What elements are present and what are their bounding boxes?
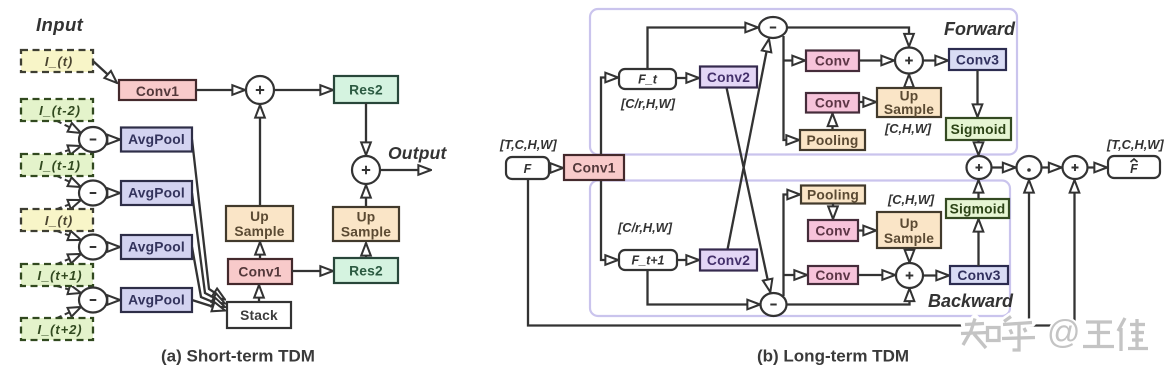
wire F_t+1 bottom branch to minus-bottom <box>648 270 761 305</box>
svg-text:Res2: Res2 <box>349 264 383 279</box>
block Conv b2 <box>808 266 858 284</box>
block Conv f1 <box>806 51 859 72</box>
watermark halo <box>961 317 1148 352</box>
svg-text:[C,H,W]: [C,H,W] <box>887 192 935 207</box>
svg-text:Input: Input <box>36 14 84 35</box>
svg-text:Conv: Conv <box>815 96 850 111</box>
wire F to Conv1 <box>549 167 563 169</box>
svg-text:I_(t): I_(t) <box>45 54 73 69</box>
svg-text:[C,H,W]: [C,H,W] <box>884 121 932 136</box>
svg-text:AvgPool: AvgPool <box>128 293 185 308</box>
block Up Sample b <box>877 212 941 248</box>
cross wire Conv2-top to minus-bottom <box>727 88 771 293</box>
wire AvgPool3 to Stack <box>192 247 225 307</box>
add node add3 <box>967 156 992 179</box>
watermark zhihu <box>961 317 1148 352</box>
wire Conv1 up to F_t <box>601 78 618 156</box>
wire Conv-b2 to addB <box>858 274 895 276</box>
svg-text:I_(t-1): I_(t-1) <box>39 158 81 173</box>
block F_t+1 <box>619 250 677 270</box>
svg-text:Sample: Sample <box>234 224 284 239</box>
wire Pooling-b down to Conv-b1 <box>832 204 834 220</box>
wire F_t to Conv2 top <box>676 77 699 79</box>
wire AvgPool4 to Stack <box>192 300 225 311</box>
block F <box>506 157 549 179</box>
svg-text:Conv1: Conv1 <box>136 84 179 99</box>
wire Sigmoid-f down to add3 <box>977 140 979 155</box>
input frame I_(t) yellow dashed <box>21 50 93 72</box>
dashed wire I_(t) to sub2 <box>57 200 81 209</box>
dashed wire I_(t+1) to sub4 <box>57 286 81 293</box>
svg-text:I_(t-2): I_(t-2) <box>39 103 81 118</box>
wire Conv3-f down to Sigmoid-f <box>976 70 978 117</box>
wire minus-top to addF (top route) <box>787 28 909 47</box>
svg-text:I_(t): I_(t) <box>45 213 73 228</box>
dashed wire I_(t) to sub3 <box>57 231 81 240</box>
wire sub2 to AvgPool2 <box>107 192 120 194</box>
wire sub1 to AvgPool1 <box>107 138 120 140</box>
subtract node sub2 <box>79 181 107 206</box>
block Res2 top <box>334 76 398 103</box>
wire sub4 to AvgPool4 <box>107 299 120 301</box>
svg-text:AvgPool: AvgPool <box>128 240 185 255</box>
dashed wire I_(t-1) to sub2 <box>57 176 81 187</box>
minus node bottom <box>761 293 787 316</box>
block Up Sample right <box>333 207 399 241</box>
svg-text:Sample: Sample <box>884 231 934 246</box>
wire AvgPool1 to Stack <box>192 140 225 300</box>
bottom residual wire F to add4 <box>528 179 1075 326</box>
svg-text:AvgPool: AvgPool <box>128 132 185 147</box>
block Stack <box>227 302 291 328</box>
wire Conv3-b up to Sigmoid-b <box>977 219 979 266</box>
wire mult to add4 <box>1042 166 1062 168</box>
dashed wire I_(t-2) to sub1 <box>57 121 81 133</box>
wire add3 to mult <box>992 166 1016 168</box>
svg-text:F_t+1: F_t+1 <box>631 254 664 268</box>
svg-text:Conv: Conv <box>815 54 850 69</box>
svg-text:[T,C,H,W]: [T,C,H,W] <box>499 137 557 152</box>
svg-text:Stack: Stack <box>240 308 278 323</box>
wire Conv1b up to UpSample <box>259 242 261 259</box>
block Conv2 top <box>700 67 757 88</box>
svg-text:Sample: Sample <box>884 102 934 117</box>
block F-hat <box>1108 156 1160 178</box>
wire Conv1b to Res2 bottom <box>292 270 333 272</box>
wire minus-top distribution down to Pooling-f <box>784 36 800 140</box>
multiply node <box>1017 156 1042 179</box>
wire UpSample1 up to add1 <box>259 105 261 206</box>
minus node top <box>759 17 787 38</box>
wire Conv-f2 to UpSample-f <box>859 101 876 103</box>
svg-text:I_(t+1): I_(t+1) <box>38 268 83 283</box>
add node add1 <box>246 76 274 104</box>
svg-text:F_t: F_t <box>638 73 658 87</box>
svg-text:(a) Short-term TDM: (a) Short-term TDM <box>161 347 315 366</box>
svg-text:Conv2: Conv2 <box>707 253 750 268</box>
svg-text:Res2: Res2 <box>349 83 383 98</box>
block Conv f2 <box>806 93 859 113</box>
wire UpSample-f up to addF <box>908 75 910 89</box>
svg-text:Sample: Sample <box>341 225 391 240</box>
bottom residual branch to mult <box>1028 180 1030 326</box>
svg-text:I_(t+2): I_(t+2) <box>38 322 83 337</box>
wire F_t top branch to minus-top <box>648 28 759 70</box>
block Up Sample left <box>226 206 293 241</box>
wire add4 to F-hat <box>1088 166 1108 168</box>
block Sigmoid f <box>946 118 1011 140</box>
wire Res2 bottom up to UpSample2 <box>365 243 367 258</box>
wire add2 to Output <box>380 169 431 171</box>
Forward group frame <box>590 9 1017 155</box>
svg-text:@: @ <box>1047 313 1081 350</box>
svg-text:Output: Output <box>388 143 448 163</box>
add node add2 <box>352 156 380 184</box>
svg-text:AvgPool: AvgPool <box>128 186 185 201</box>
wire I_(t) to Conv1 <box>93 61 117 83</box>
svg-text:Up: Up <box>250 209 269 224</box>
dashed wire I_(t-1) to sub1 <box>57 146 81 154</box>
block Conv3 f <box>949 49 1006 70</box>
svg-text:Backward: Backward <box>928 291 1014 311</box>
svg-text:[C/r,H,W]: [C/r,H,W] <box>620 96 676 111</box>
svg-text:F: F <box>524 162 532 176</box>
svg-text:Conv: Conv <box>815 224 850 239</box>
subtract node sub1 <box>79 127 107 152</box>
Backward group frame <box>590 181 1010 317</box>
block Sigmoid b <box>946 199 1009 218</box>
block Conv2 bottom <box>700 250 757 271</box>
block Res2 bottom <box>334 258 398 283</box>
svg-text:Conv3: Conv3 <box>957 268 1000 283</box>
cross wire Conv2-bottom to minus-top <box>728 39 770 250</box>
block Pooling b <box>801 186 865 204</box>
block Up Sample f <box>877 88 941 117</box>
wire Conv-f1 to addF <box>859 59 894 61</box>
block Pooling f <box>800 130 865 150</box>
svg-text:(b) Long-term TDM: (b) Long-term TDM <box>757 347 909 366</box>
wire Pooling-f up to Conv-f2 <box>831 114 833 131</box>
wire Res2 down to add2 <box>365 103 367 155</box>
svg-text:Conv2: Conv2 <box>707 70 750 85</box>
subtract node sub4 <box>79 288 107 313</box>
wire addB to Conv3-b <box>923 274 949 276</box>
add node add4 <box>1063 156 1088 179</box>
add node addB <box>896 263 923 288</box>
wire UpSample-b down to addB <box>908 248 910 263</box>
wire sub3 to AvgPool3 <box>107 246 120 248</box>
dashed wire I_(t+2) to sub4 <box>57 307 81 318</box>
wire minus-bottom to addB (bottom route) <box>786 289 910 305</box>
block Conv3 b <box>950 266 1008 284</box>
input frame I_(t+1) green dashed <box>21 264 93 286</box>
block Conv1 top <box>119 80 196 100</box>
wire distribution branch to Conv-b2 <box>784 274 808 276</box>
add node addF <box>895 48 923 74</box>
wire addF to Conv3-f <box>923 59 948 61</box>
block Conv1 bottom <box>228 259 292 284</box>
subtract node sub3 <box>79 235 107 260</box>
wire Conv-b1 to UpSample-b <box>858 229 876 231</box>
svg-text:Conv1: Conv1 <box>572 161 615 176</box>
wire Conv1 down to F_t+1 <box>601 180 618 260</box>
svg-text:Forward: Forward <box>944 19 1016 39</box>
svg-text:Conv1: Conv1 <box>238 265 281 280</box>
svg-text:[C/r,H,W]: [C/r,H,W] <box>617 220 673 235</box>
wire Res2 bottom up to add2 <box>365 185 367 206</box>
svg-text:Up: Up <box>357 210 376 225</box>
wire AvgPool2 to Stack <box>192 193 225 304</box>
wire Sigmoid-b up to add3 <box>977 180 979 199</box>
dashed wire I_(t+1) to sub3 <box>57 254 81 264</box>
wire F_t+1 to Conv2 bottom <box>677 259 699 261</box>
wire minus-bottom distribution up to Pooling-b <box>784 195 801 297</box>
input frame I_(t) yellow dashed (middle) <box>21 209 93 231</box>
block AvgPool1 <box>121 128 192 152</box>
input frame I_(t+2) green dashed <box>21 318 93 340</box>
wire Conv1 to add1 <box>196 89 245 91</box>
svg-text:Pooling: Pooling <box>807 188 859 203</box>
block F_t <box>619 69 676 89</box>
svg-text:Conv: Conv <box>815 268 850 283</box>
svg-text:[T,C,H,W]: [T,C,H,W] <box>1106 137 1164 152</box>
wire Stack up to Conv1b <box>258 285 260 302</box>
block AvgPool4 <box>121 288 192 312</box>
block Conv b1 <box>808 220 858 241</box>
svg-text:Up: Up <box>900 216 919 231</box>
svg-text:F: F <box>1130 162 1138 176</box>
input frame I_(t-2) green dashed <box>21 99 93 121</box>
block Conv1 right <box>564 155 624 180</box>
wire distribution branch to Conv-f1 <box>784 59 806 61</box>
input frame I_(t-1) green dashed <box>21 154 93 176</box>
svg-text:Conv3: Conv3 <box>956 53 999 68</box>
svg-text:Sigmoid: Sigmoid <box>950 202 1006 217</box>
svg-text:Pooling: Pooling <box>807 133 859 148</box>
block AvgPool3 <box>121 235 192 259</box>
svg-text:Sigmoid: Sigmoid <box>951 122 1007 137</box>
wire add1 to Res2 top <box>274 89 333 91</box>
block AvgPool2 <box>121 181 192 205</box>
